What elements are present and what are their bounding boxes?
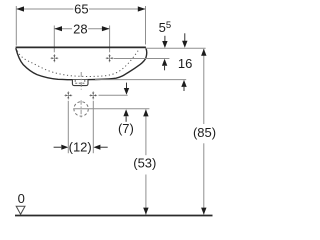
- dimension (12) extension line right: [92, 101, 94, 153]
- dimension 65 line: [16, 8, 73, 10]
- dimension 28 arrow right: [102, 26, 110, 31]
- washbasin outer apron curve: [16, 48, 147, 80]
- siphon vertical centerline: [80, 100, 82, 117]
- dimension 65 arrow right: [138, 6, 146, 11]
- rim extension line right: [146, 47, 206, 49]
- dimension (53) line: [145, 109, 147, 155]
- svg-text:65: 65: [74, 1, 88, 16]
- svg-text:16: 16: [178, 56, 192, 71]
- floor line: [15, 215, 213, 217]
- dimension 65 extension line right: [145, 6, 147, 45]
- dimension (53) down arrow: [143, 208, 148, 215]
- dimension (7) up arrow: [123, 109, 128, 116]
- drain centerline: [80, 72, 82, 90]
- dimension 28 extension line left: [53, 26, 55, 53]
- dimension 5.5 up arrow: [162, 59, 167, 66]
- dimension 65 arrow left: [16, 6, 24, 11]
- dimension 65 extension line left: [15, 6, 17, 46]
- svg-text:0: 0: [18, 191, 25, 206]
- dimension (12) right arrow: [93, 145, 100, 150]
- drain tab outline: [72, 80, 88, 86]
- svg-text:(53): (53): [133, 156, 156, 171]
- dimension 28 extension line right: [109, 26, 111, 53]
- dimension (85) down arrow: [201, 208, 206, 215]
- washbasin inner bowl hidden edge (dotted): [17, 50, 138, 76]
- svg-text:(85): (85): [193, 125, 216, 140]
- svg-text:28: 28: [73, 21, 87, 36]
- dimension (85) up arrow: [201, 49, 206, 56]
- basin bottom extension line right: [95, 79, 186, 81]
- lower fixing cross right: [89, 91, 97, 99]
- dimension 16 down arrow: [184, 33, 186, 41]
- washbasin rim line: [16, 46, 146, 48]
- dimension (12) extension line left: [67, 101, 69, 153]
- dimension (7) down arrow: [126, 83, 128, 89]
- dimension (85) line: [203, 49, 205, 124]
- dimension 16 up arrow: [181, 80, 186, 87]
- dimension 28 arrow left: [54, 26, 62, 31]
- fixing hole cross left: [51, 54, 59, 62]
- siphon circle (dashed): [74, 102, 88, 116]
- lower fixing holes extension line right: [99, 94, 128, 96]
- svg-text:(7): (7): [118, 121, 134, 136]
- svg-text:55: 55: [159, 20, 172, 35]
- svg-text:(12): (12): [69, 140, 92, 155]
- dimension 5.5 down arrow: [164, 36, 166, 42]
- dimension (53) up arrow: [143, 109, 148, 116]
- drain hidden hole (dashed): [75, 80, 85, 83]
- dimension (12) left arrow: [54, 146, 62, 148]
- siphon horizontal centerline and extension right: [73, 108, 149, 110]
- lower fixing cross left: [64, 91, 72, 99]
- fixing holes extension line right: [114, 58, 170, 60]
- datum triangle: [16, 206, 25, 214]
- dimension 28 line: [54, 28, 72, 30]
- fixing hole cross right: [106, 54, 114, 62]
